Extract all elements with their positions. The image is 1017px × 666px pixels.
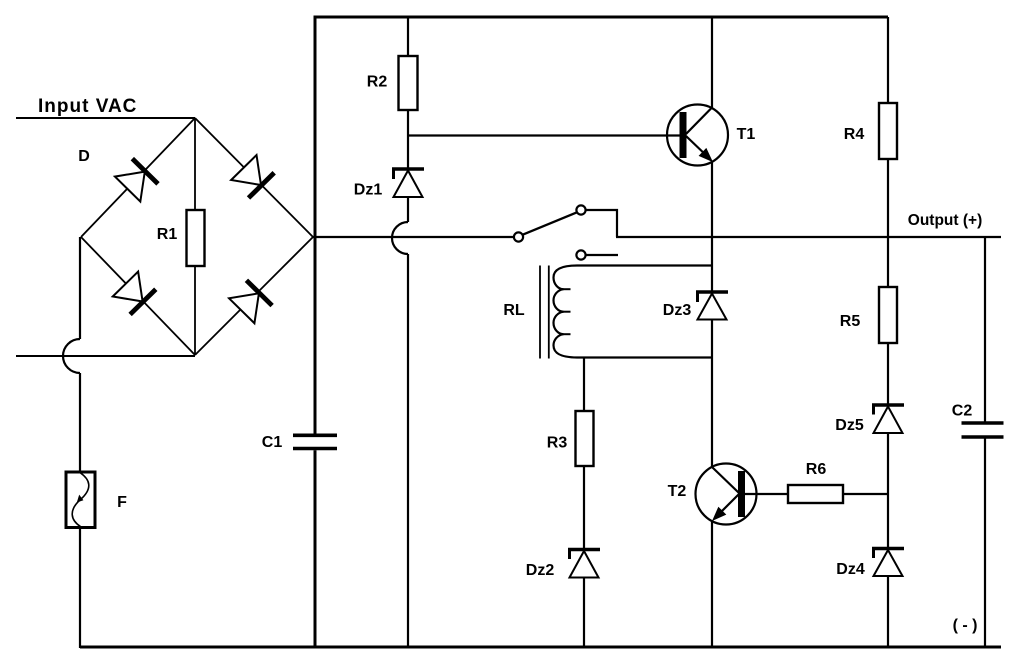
- svg-text:R4: R4: [844, 126, 865, 143]
- resistor R5: [879, 287, 897, 343]
- svg-text:Input VAC: Input VAC: [38, 96, 137, 117]
- svg-text:Dz5: Dz5: [835, 417, 864, 434]
- wire bridge edge bottom-left: [81, 237, 195, 355]
- switch throw contact: [576, 205, 585, 214]
- wire T1 base wire: [408, 134, 680, 136]
- wire R1 top lead: [194, 118, 196, 210]
- wire hop over output rail: [392, 222, 408, 254]
- fuse F: [66, 472, 95, 528]
- wire T2 base to R6: [745, 493, 788, 495]
- wire left vertex drop to hop: [79, 237, 81, 339]
- wire T2 emitter to bottom rail: [711, 521, 713, 648]
- resistor R3: [576, 411, 594, 466]
- wire coil bottom to R3: [583, 358, 585, 412]
- wire Dz1 anode lead: [407, 197, 409, 222]
- wire R6 to junction: [843, 493, 888, 495]
- svg-text:Output (+): Output (+): [908, 212, 982, 229]
- wire R5 to Dz5: [887, 343, 889, 405]
- svg-text:F: F: [117, 494, 127, 511]
- svg-text:( - ): ( - ): [953, 617, 978, 634]
- wire R3 to Dz2: [583, 466, 585, 549]
- capacitor C2: [962, 423, 1004, 437]
- wire R4 top lead: [887, 17, 889, 103]
- relay core line 1: [539, 266, 541, 359]
- wire Dz5 to junction and Dz4: [887, 433, 889, 549]
- svg-text:T2: T2: [668, 483, 687, 500]
- wire left border upper segment (x=315 down to C1): [314, 16, 317, 434]
- transistor T2: [696, 464, 757, 525]
- wire R4 bottom lead to rail: [887, 159, 889, 237]
- svg-text:C2: C2: [952, 403, 973, 420]
- wire input lower lead: [16, 355, 195, 357]
- svg-text:R3: R3: [547, 435, 568, 452]
- wire R2 bottom lead to Dz1: [407, 110, 409, 169]
- wire output rail left part: [313, 236, 514, 238]
- svg-text:Dz2: Dz2: [526, 562, 555, 579]
- diode D lower-left: [113, 271, 156, 314]
- svg-text:T1: T1: [737, 126, 756, 143]
- diode D upper-right: [231, 155, 274, 198]
- resistor R6: [788, 485, 843, 503]
- zener Dz2: [568, 550, 600, 578]
- svg-text:RL: RL: [503, 302, 525, 319]
- wire hop to fuse: [79, 373, 81, 472]
- wire bottom rail: [80, 646, 1001, 649]
- transistor T1: [667, 105, 728, 166]
- wire left border lower segment (C1 to bottom rail): [314, 450, 317, 647]
- resistor R1: [187, 210, 205, 266]
- svg-text:R1: R1: [157, 226, 178, 243]
- switch blade: [523, 212, 577, 234]
- relay RL coil: [554, 266, 713, 358]
- wire Dz2 to bottom rail: [583, 578, 585, 649]
- wire fuse to bottom rail: [79, 528, 81, 649]
- wire bridge edge top-left: [81, 118, 195, 237]
- wire C2 bottom lead: [984, 439, 986, 649]
- wire input VAC top lead: [16, 117, 195, 119]
- svg-text:Dz1: Dz1: [354, 182, 383, 199]
- wire Dz1 branch to bottom rail: [407, 254, 409, 648]
- svg-text:Dz3: Dz3: [663, 302, 692, 319]
- wire T1 collector from top rail: [711, 17, 713, 108]
- svg-text:D: D: [78, 148, 90, 165]
- svg-text:C1: C1: [262, 434, 283, 451]
- capacitor C1: [293, 435, 337, 448]
- wire T1 emitter down through rail and relay to Dz3: [711, 162, 713, 292]
- zener Dz1: [392, 169, 424, 197]
- zener Dz4: [872, 549, 904, 577]
- wire rail to R5: [887, 237, 889, 287]
- wire top rail: [315, 16, 888, 19]
- svg-text:R5: R5: [840, 313, 861, 330]
- svg-text:R2: R2: [367, 74, 388, 91]
- wire bridge edge bottom-right: [195, 237, 313, 355]
- wire stub from NO contact: [586, 254, 618, 256]
- wire from throw contact: [586, 210, 617, 237]
- wire bridge edge top-right: [195, 118, 313, 237]
- wire hop over lower input lead: [63, 339, 80, 373]
- wire R1 bottom lead: [194, 266, 196, 355]
- zener Dz3: [696, 292, 728, 320]
- zener Dz5: [872, 405, 904, 433]
- resistor R2: [399, 56, 418, 110]
- switch pole contact: [514, 232, 523, 241]
- resistor R4: [879, 103, 897, 159]
- svg-text:Dz4: Dz4: [836, 561, 865, 578]
- wire Dz3 to T2 collector: [711, 320, 713, 468]
- wire output rail right part: [616, 236, 1001, 238]
- svg-text:R6: R6: [806, 461, 827, 478]
- wire R2 top lead: [407, 17, 409, 56]
- diode D lower-right: [229, 280, 272, 323]
- relay core line 2: [548, 266, 550, 359]
- relay NO contact: [576, 250, 585, 259]
- wire C2 top lead: [984, 237, 986, 422]
- diode D upper-left: [115, 159, 158, 202]
- wire Dz4 to bottom rail: [887, 576, 889, 648]
